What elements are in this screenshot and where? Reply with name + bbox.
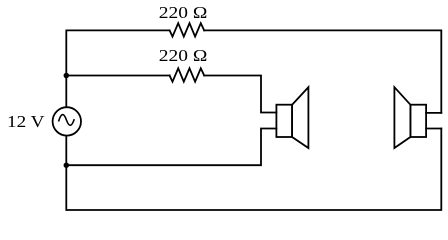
wire top rail right segment (204, 30, 441, 113)
svg-text:12 V: 12 V (7, 112, 45, 131)
resistor R1 (170, 23, 205, 36)
wire speaker LS2 upper lead (426, 112, 441, 114)
node A junction dot (64, 73, 70, 79)
wire resistor R2 to speaker LS1 upper lead (204, 76, 276, 113)
node B junction dot (64, 162, 70, 168)
svg-text:220 Ω: 220 Ω (159, 46, 208, 65)
resistor R2 (170, 68, 205, 81)
wire branch 2 from node A to resistor R2 (66, 75, 169, 77)
speaker LS1 (276, 87, 308, 148)
wire node B to speaker LS1 lower lead (66, 129, 276, 166)
wire speaker LS2 lower lead (426, 128, 441, 130)
wire top rail left segment (66, 30, 169, 106)
svg-text:220 Ω: 220 Ω (159, 3, 208, 22)
wire source bottom to bottom rail (66, 129, 441, 211)
speaker LS2 (394, 87, 426, 148)
AC source V1 (53, 107, 81, 135)
